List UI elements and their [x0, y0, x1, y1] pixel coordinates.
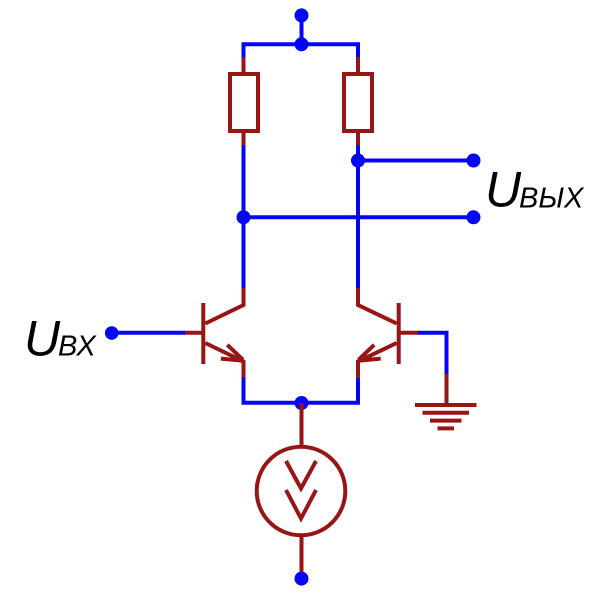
transistor VT2 emitter arrowhead fill [357, 353, 372, 362]
svg-text:U: U [24, 311, 61, 367]
wire: current source top lead (red) [300, 403, 304, 448]
transistor VT2 (right npn) [358, 288, 419, 378]
junction: common emitter node [295, 396, 309, 410]
wire stub: R2 bottom lead (red) [356, 130, 360, 146]
wire: lower output horizontal [244, 215, 474, 219]
node: output terminal upper [467, 154, 481, 168]
svg-text:U: U [485, 162, 522, 218]
wire: left rail corner drop (blue) [242, 42, 246, 58]
node: top supply terminal [295, 8, 309, 22]
wire: left emitter drop + bottom rail (blue) [244, 377, 359, 403]
resistor R1 [230, 74, 258, 131]
current source I1 [257, 447, 346, 536]
junction: top rail node [295, 37, 309, 51]
wire: right base lead (blue) [418, 333, 447, 375]
transistor VT1 (left npn) [184, 288, 244, 378]
wire: input lead (blue) [112, 331, 185, 335]
node: bottom terminal [295, 572, 309, 586]
wire: right collector riser (blue) [356, 145, 360, 289]
wire: left collector riser (blue) [242, 145, 246, 289]
svg-text:ВЫХ: ВЫХ [519, 183, 585, 215]
wire: upper output horizontal [358, 159, 474, 163]
svg-text:ВХ: ВХ [58, 331, 97, 363]
wire: top supply drop [300, 15, 304, 44]
wire: ground drop (red) [445, 374, 449, 405]
wire: top horizontal rail [244, 42, 359, 46]
resistor R2 [344, 74, 372, 131]
transistor VT1 emitter arrowhead fill [231, 353, 246, 362]
wire stub: R2 top lead (red) [356, 57, 360, 75]
junction: right collector output node [351, 154, 365, 168]
node: input terminal [105, 326, 119, 340]
node: output terminal lower [467, 210, 481, 224]
junction: left collector output node [237, 210, 251, 224]
wire stub: R1 bottom lead (red) [242, 130, 246, 146]
ground symbol [415, 405, 477, 428]
wire stub: R1 top lead (red) [242, 57, 246, 75]
wire: right rail corner drop (blue) [356, 42, 360, 58]
wire: current source bottom lead (red) [300, 534, 304, 573]
